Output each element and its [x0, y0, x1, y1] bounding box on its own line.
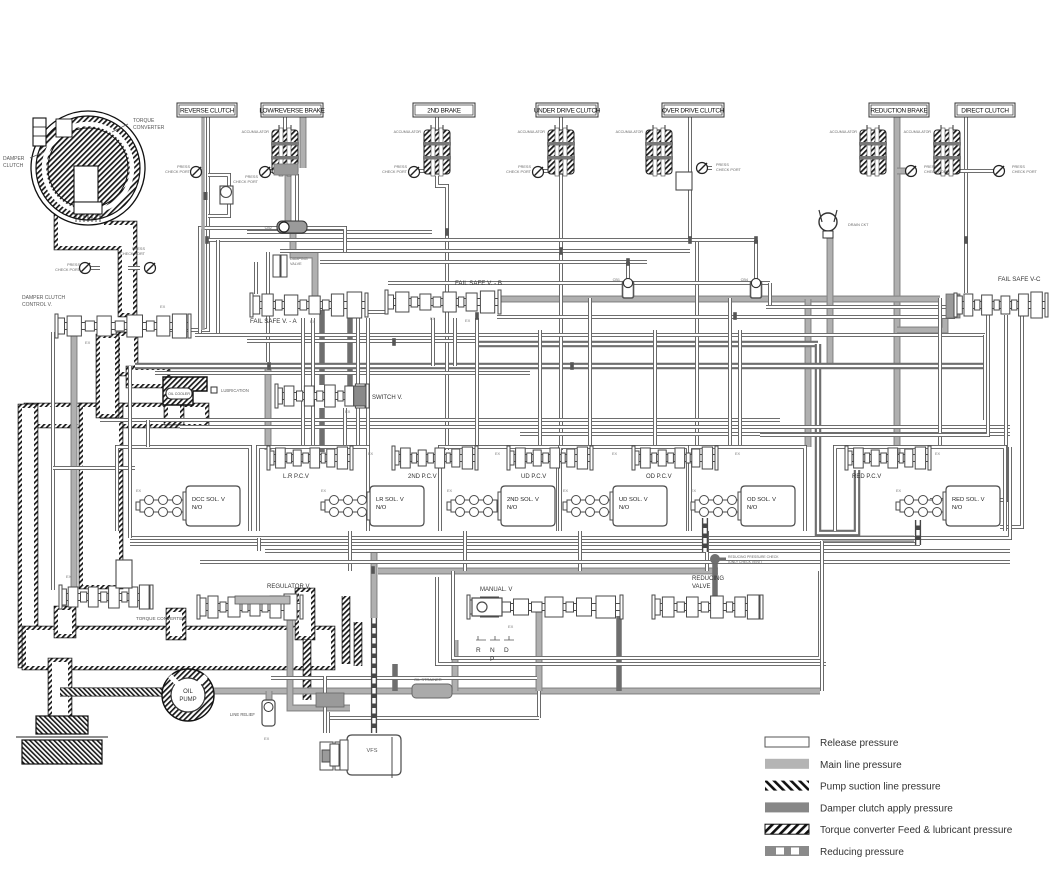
svg-text:Reducing pressure: Reducing pressure [820, 847, 904, 858]
svg-text:CHECK PORT: CHECK PORT [165, 170, 191, 174]
svg-text:EX: EX [430, 316, 436, 321]
svg-text:EX: EX [735, 452, 741, 456]
svg-text:DIRECT CLUTCH: DIRECT CLUTCH [961, 107, 1009, 114]
svg-text:CHECK PORT: CHECK PORT [716, 168, 742, 172]
svg-text:ACCUMULATOR: ACCUMULATOR [904, 130, 932, 134]
svg-text:CONTROL V.: CONTROL V. [22, 302, 52, 308]
svg-text:RED P.C.V: RED P.C.V [852, 474, 881, 480]
svg-text:REGULATOR V.: REGULATOR V. [267, 584, 311, 590]
svg-text:DCC SOL. V: DCC SOL. V [192, 497, 225, 503]
svg-text:ACCUMULATOR: ACCUMULATOR [830, 130, 858, 134]
svg-text:OIL: OIL [183, 689, 193, 695]
svg-text:PRESS: PRESS [245, 175, 258, 179]
svg-text:ACCUMULATOR: ACCUMULATOR [616, 130, 644, 134]
svg-text:PRESS: PRESS [716, 163, 729, 167]
svg-text:CONVERTER: CONVERTER [133, 125, 165, 131]
svg-text:SWITCH V.: SWITCH V. [372, 395, 403, 401]
svg-text:2ND P.C.V: 2ND P.C.V [408, 474, 437, 480]
svg-text:PRESS: PRESS [177, 165, 190, 169]
svg-text:FAIL SAFE V. - A: FAIL SAFE V. - A [250, 318, 298, 325]
svg-text:MANUAL. V: MANUAL. V [480, 587, 512, 593]
svg-text:CHECK PORT: CHECK PORT [120, 252, 146, 256]
svg-text:DAMPING: DAMPING [290, 257, 308, 261]
svg-text:Main line pressure: Main line pressure [820, 760, 902, 771]
svg-text:LOW/REVERSE BRAKE: LOW/REVERSE BRAKE [259, 107, 324, 114]
svg-text:N: N [490, 647, 495, 654]
svg-text:EX: EX [508, 624, 514, 629]
svg-text:LUBRICATION: LUBRICATION [221, 388, 249, 393]
svg-text:DAMPER CLUTCH: DAMPER CLUTCH [22, 295, 65, 301]
svg-text:PRESS: PRESS [518, 165, 531, 169]
svg-text:N/O: N/O [507, 505, 518, 511]
svg-text:EX: EX [136, 489, 142, 493]
svg-text:EX: EX [160, 304, 166, 309]
svg-text:CHECK PORT: CHECK PORT [506, 170, 532, 174]
svg-text:RED SOL. V: RED SOL. V [952, 497, 985, 503]
svg-text:D: D [504, 647, 509, 654]
svg-text:UD P.C.V: UD P.C.V [521, 474, 546, 480]
svg-text:(ONLY CHECK VENT): (ONLY CHECK VENT) [728, 560, 762, 564]
svg-text:EX: EX [66, 574, 72, 579]
svg-text:ACCUMULATOR: ACCUMULATOR [518, 130, 546, 134]
svg-text:PRESS: PRESS [1012, 165, 1025, 169]
svg-text:2ND BRAKE: 2ND BRAKE [427, 107, 461, 114]
svg-text:PRESS: PRESS [394, 165, 407, 169]
svg-text:TORQUE: TORQUE [133, 118, 155, 124]
svg-text:LR SOL. V: LR SOL. V [376, 497, 404, 503]
svg-text:OIL STRAINER: OIL STRAINER [414, 677, 442, 682]
svg-text:UD SOL. V: UD SOL. V [619, 497, 648, 503]
svg-text:L.R P.C.V: L.R P.C.V [283, 474, 309, 480]
svg-text:EX: EX [896, 489, 902, 493]
svg-text:VALVE: VALVE [290, 262, 302, 266]
svg-text:EX: EX [465, 318, 471, 323]
svg-text:N/O: N/O [747, 505, 758, 511]
svg-text:N/O: N/O [619, 505, 630, 511]
svg-text:VALVE: VALVE [692, 584, 710, 590]
svg-text:ACCUMULATOR: ACCUMULATOR [394, 130, 422, 134]
svg-text:EX: EX [563, 489, 569, 493]
svg-text:REVERSE CLUTCH: REVERSE CLUTCH [180, 107, 235, 114]
svg-text:2ND SOL. V: 2ND SOL. V [507, 497, 539, 503]
svg-text:VFS: VFS [367, 748, 378, 754]
svg-text:DRAIN CKT: DRAIN CKT [848, 223, 869, 227]
svg-text:EX: EX [447, 489, 453, 493]
svg-text:Release pressure: Release pressure [820, 738, 899, 749]
svg-text:UNDER DRIVE CLUTCH: UNDER DRIVE CLUTCH [534, 107, 601, 114]
svg-text:ACCUMULATOR: ACCUMULATOR [242, 130, 270, 134]
svg-text:CHECK PORT: CHECK PORT [233, 180, 259, 184]
svg-text:PRESS: PRESS [67, 263, 80, 267]
svg-text:PRESS: PRESS [132, 247, 145, 251]
svg-text:EX: EX [345, 409, 351, 414]
svg-text:PUMP: PUMP [179, 697, 196, 703]
svg-text:Pump suction line pressure: Pump suction line pressure [820, 782, 941, 793]
svg-text:EX: EX [321, 489, 327, 493]
svg-text:OD P.C.V: OD P.C.V [646, 474, 672, 480]
svg-text:N/O: N/O [376, 505, 387, 511]
svg-text:CB1: CB1 [613, 278, 620, 282]
svg-text:Torque converter Feed & lubric: Torque converter Feed & lubricant pressu… [820, 825, 1013, 836]
svg-text:DAMPER: DAMPER [3, 156, 25, 162]
svg-text:PRESS: PRESS [924, 165, 937, 169]
svg-text:CB4: CB4 [741, 278, 748, 282]
svg-text:R: R [476, 647, 481, 654]
svg-text:REDUCING PRESSURE CHECK: REDUCING PRESSURE CHECK [728, 555, 779, 559]
svg-text:LINE RELIEF: LINE RELIEF [230, 712, 256, 717]
svg-text:EX: EX [612, 452, 618, 456]
svg-text:CB2: CB2 [265, 226, 272, 230]
svg-text:P: P [490, 656, 494, 663]
svg-text:EX: EX [264, 736, 270, 741]
svg-text:EX: EX [85, 340, 91, 345]
svg-text:EX: EX [495, 452, 501, 456]
svg-text:CHECK PORT: CHECK PORT [55, 268, 81, 272]
svg-text:CLUTCH: CLUTCH [3, 163, 24, 169]
svg-text:FAIL SAFE V. - B: FAIL SAFE V. - B [455, 280, 502, 287]
svg-text:CHECK PORT: CHECK PORT [1012, 170, 1038, 174]
svg-text:N/O: N/O [952, 505, 963, 511]
svg-text:CHECK PORT: CHECK PORT [382, 170, 408, 174]
svg-text:OVER DRIVE CLUTCH: OVER DRIVE CLUTCH [662, 107, 725, 114]
svg-text:REDUCING: REDUCING [692, 576, 724, 582]
svg-text:OIL COOLER: OIL COOLER [168, 392, 190, 396]
svg-text:EX: EX [935, 452, 941, 456]
svg-text:TORQUE CONVERTER: TORQUE CONVERTER [136, 616, 186, 621]
svg-text:OD SOL. V: OD SOL. V [747, 497, 776, 503]
svg-text:N/O: N/O [192, 505, 203, 511]
svg-text:EX: EX [691, 489, 697, 493]
svg-text:EX: EX [310, 319, 316, 324]
svg-text:CHECK PORT: CHECK PORT [924, 170, 950, 174]
svg-text:EX: EX [368, 452, 374, 456]
svg-text:FAIL SAFE V-C: FAIL SAFE V-C [998, 276, 1041, 283]
svg-text:Damper clutch apply pressure: Damper clutch apply pressure [820, 803, 953, 814]
svg-text:REDUCTION BRAKE: REDUCTION BRAKE [871, 107, 928, 114]
